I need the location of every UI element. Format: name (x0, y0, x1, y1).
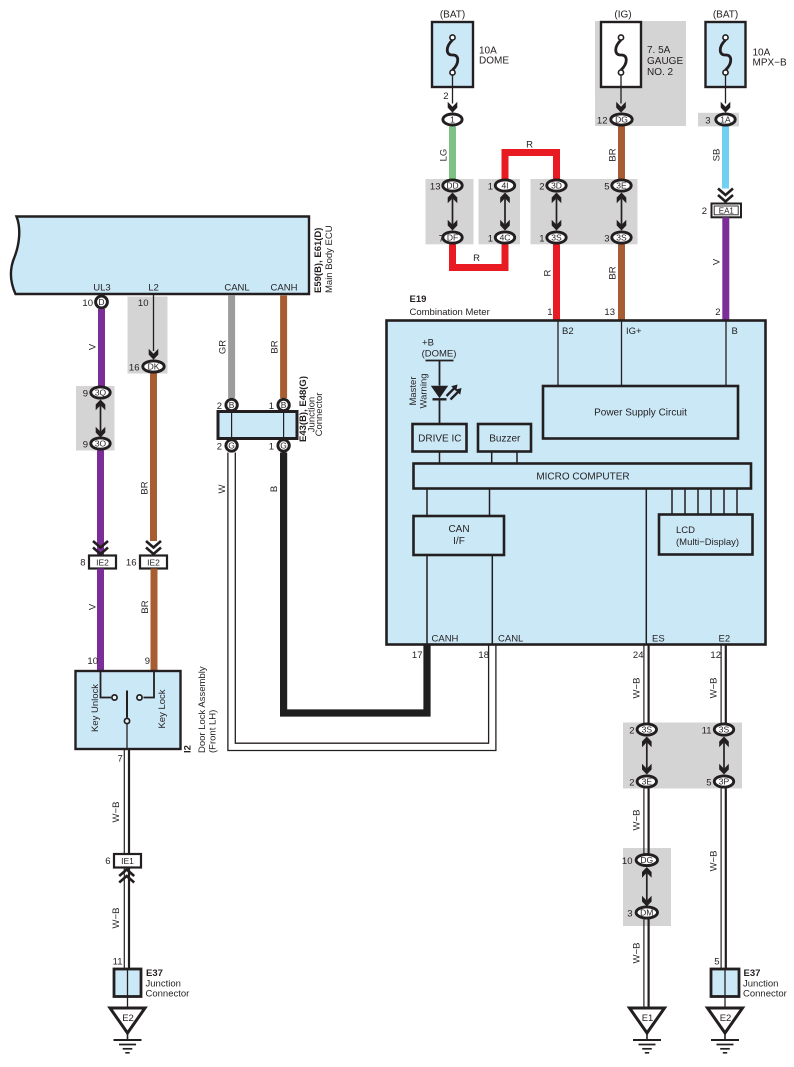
DRIVE IC (413, 424, 467, 452)
svg-text:DOME: DOME (479, 56, 509, 67)
connector 3E pin 5 (612, 180, 631, 191)
svg-text:V: V (87, 343, 98, 350)
svg-text:DK: DK (148, 362, 160, 372)
wire W-B Key to IE1 (123, 749, 125, 854)
svg-text:Buzzer: Buzzer (489, 434, 521, 445)
LED Master Warning (431, 386, 448, 398)
svg-text:E19: E19 (410, 294, 427, 305)
wire E37 to ground E2 right (724, 997, 726, 1009)
wires to MICRO COMPUTER (439, 452, 441, 464)
svg-text:3S: 3S (616, 233, 627, 243)
junction connector E37 left (114, 969, 141, 997)
svg-text:3E: 3E (642, 777, 653, 787)
svg-text:3: 3 (705, 115, 710, 126)
svg-text:W−B: W−B (631, 678, 642, 699)
svg-text:Combination Meter: Combination Meter (410, 307, 490, 318)
connector G pin 2 (226, 440, 237, 451)
svg-text:5: 5 (604, 181, 609, 192)
svg-text:E37: E37 (146, 968, 163, 979)
connector D pin 10 on ECU UL3 (96, 296, 108, 308)
connector 3Q pin 9 (91, 387, 110, 398)
svg-text:E37: E37 (744, 968, 761, 979)
connector block shading 4I/4C (479, 179, 521, 244)
svg-text:CANH: CANH (432, 634, 459, 645)
svg-text:5: 5 (714, 957, 719, 968)
svg-text:10: 10 (622, 856, 633, 867)
svg-text:DG: DG (615, 115, 628, 125)
svg-text:I2: I2 (183, 745, 194, 753)
wire V violet 3O to IE2 (97, 451, 104, 556)
svg-text:1: 1 (450, 115, 455, 125)
svg-text:+B: +B (422, 338, 434, 349)
connector block shading 1A (698, 113, 739, 127)
svg-text:W−B: W−B (111, 802, 122, 823)
wire W-B IE1 to E37 (123, 868, 125, 970)
connector DG pin 12 (611, 114, 632, 125)
ground symbol E1 (646, 1033, 648, 1040)
connector 3O pin 9 (91, 438, 110, 449)
svg-text:E2: E2 (719, 634, 731, 645)
connector DK pin 16 (143, 361, 164, 372)
connector block shading DD/DF (426, 179, 474, 244)
svg-text:GR: GR (217, 340, 228, 354)
junction arrows 3E-3S (621, 199, 623, 225)
connector DG pin 10 (636, 854, 657, 865)
svg-text:4I: 4I (501, 181, 508, 191)
wire W-B 3P to E37 (720, 789, 722, 970)
svg-text:10: 10 (87, 656, 98, 667)
svg-text:10: 10 (138, 298, 149, 309)
junction arrows DD-DF (452, 199, 454, 225)
wire W-B 3E to DG (643, 789, 645, 854)
svg-text:8: 8 (80, 557, 85, 568)
wire B black G to meter CANH (284, 453, 427, 714)
svg-text:B: B (269, 486, 280, 492)
svg-text:3O: 3O (95, 439, 107, 449)
svg-text:1: 1 (547, 307, 552, 318)
connector DF pin 7 (443, 232, 462, 243)
connector block shading 3S/3E/3S/3P (623, 723, 742, 789)
wire BR brown DG to 3E (618, 127, 625, 180)
svg-text:Master: Master (408, 376, 419, 405)
svg-text:E2: E2 (122, 1013, 134, 1024)
wire BR brown IE2 to Key Lock (151, 569, 158, 672)
svg-text:3S: 3S (551, 233, 562, 243)
svg-text:2: 2 (443, 91, 448, 102)
meter pin IG+ 13 (621, 322, 623, 387)
svg-text:R: R (542, 269, 553, 276)
svg-text:BR: BR (607, 266, 618, 279)
svg-text:E1: E1 (642, 1013, 654, 1024)
junction arrows 4I-4C (504, 199, 506, 225)
svg-text:2: 2 (217, 441, 222, 452)
MICRO COMPUTER (414, 464, 752, 489)
meter pin B 2 (725, 322, 727, 387)
wire W-B ES to 3S (643, 645, 645, 723)
wire MICRO COMPUTER to ES pin (645, 489, 647, 644)
svg-text:9: 9 (83, 439, 88, 450)
junction arrows 3S-3E (646, 743, 648, 769)
wire W white G to meter CANL (228, 453, 496, 751)
svg-text:B2: B2 (562, 326, 574, 337)
connector B pin 6 CANL (226, 399, 237, 410)
ground symbol E2 right (724, 1033, 726, 1040)
svg-text:GAUGE: GAUGE (647, 56, 683, 67)
ground triangle E2 right (708, 1008, 743, 1033)
connector 3S pin 3 (612, 232, 631, 243)
svg-text:(Multi−Display): (Multi−Display) (676, 537, 739, 548)
svg-text:B: B (732, 326, 738, 337)
ground symbol left (127, 1033, 129, 1040)
svg-text:2: 2 (702, 206, 707, 217)
svg-text:CANL: CANL (224, 283, 249, 294)
svg-text:2: 2 (629, 777, 634, 788)
svg-text:G: G (280, 441, 287, 451)
wire V violet IE2 to Key Unlock (97, 569, 104, 672)
svg-text:16: 16 (129, 362, 140, 373)
svg-text:CAN: CAN (448, 524, 469, 535)
svg-text:BR: BR (139, 481, 150, 494)
wire W-B meter E2 to 3S (720, 645, 722, 723)
svg-text:3: 3 (627, 908, 632, 919)
svg-text:3P: 3P (719, 777, 730, 787)
svg-text:BR: BR (607, 148, 618, 161)
svg-text:Connector: Connector (146, 989, 190, 1000)
svg-text:13: 13 (604, 307, 615, 318)
wire V violet D to 3Q (98, 309, 105, 387)
connector block shading GAUGE fuse / DG (595, 21, 686, 126)
svg-text:7: 7 (118, 754, 123, 765)
svg-text:ES: ES (652, 634, 665, 645)
svg-text:NO. 2: NO. 2 (647, 67, 674, 78)
Power Supply Circuit (543, 386, 738, 439)
svg-text:(IG): (IG) (614, 10, 631, 21)
svg-text:Key Lock: Key Lock (157, 689, 168, 728)
svg-text:Connector: Connector (743, 989, 787, 1000)
svg-text:SB: SB (711, 149, 722, 162)
Buzzer (478, 424, 531, 452)
wire L2 pin 10 to DK (153, 295, 155, 351)
wire BR brown DK to IE2 (150, 374, 157, 542)
svg-text:11: 11 (702, 725, 712, 736)
splice chevron BR (146, 541, 161, 554)
svg-text:(BAT): (BAT) (713, 10, 738, 21)
connector block shading L2/DK (128, 297, 168, 374)
svg-text:MICRO COMPUTER: MICRO COMPUTER (536, 472, 629, 483)
svg-text:3Q: 3Q (95, 388, 107, 398)
svg-text:W: W (217, 484, 228, 493)
svg-text:Main Body ECU: Main Body ECU (324, 225, 335, 293)
ground triangle E2 left (110, 1008, 145, 1033)
connector 3S pin 11 (714, 724, 733, 735)
connector B pin 5 CANH (278, 399, 289, 410)
svg-text:7. 5A: 7. 5A (647, 45, 671, 56)
Door Lock Assembly I2 Front LH (76, 671, 181, 749)
svg-text:W−B: W−B (111, 908, 122, 929)
svg-text:DD: DD (446, 181, 458, 191)
svg-text:3S: 3S (642, 725, 653, 735)
svg-text:6: 6 (105, 856, 110, 867)
svg-text:IE2: IE2 (96, 557, 109, 567)
wire R red 3S to meter B2 (553, 245, 560, 321)
wire fuse MPX-B to connector 1A (725, 75, 727, 104)
wire R red DF to 4C (453, 245, 506, 268)
svg-text:B: B (281, 400, 287, 410)
junction connector E43(B) E48(G) (218, 412, 297, 439)
junction arrows 3S-3P (723, 743, 725, 769)
connector G pin 1 (278, 440, 289, 451)
wire fuse DOME to connector 1 (452, 75, 454, 104)
svg-text:DG: DG (640, 855, 653, 865)
svg-text:W−B: W−B (631, 810, 642, 831)
svg-text:1: 1 (539, 233, 544, 244)
svg-text:3D: 3D (551, 181, 562, 191)
svg-text:(BAT): (BAT) (440, 10, 465, 21)
svg-text:W−B: W−B (631, 943, 642, 964)
svg-text:16: 16 (126, 557, 137, 568)
connector DD pin 13 (443, 180, 462, 191)
connector block shading DG/DM (623, 848, 671, 926)
connector EA1 pin 2 (712, 204, 742, 218)
svg-text:EA1: EA1 (719, 207, 735, 216)
svg-text:17: 17 (412, 650, 423, 661)
connector 3S pin 2 (637, 724, 656, 735)
splice chevron up W-B (119, 870, 134, 883)
connector 4I pin 1 (495, 180, 514, 191)
connector 4C pin 1 (495, 232, 514, 243)
svg-text:Connector: Connector (314, 393, 325, 437)
splice chevron SB (718, 189, 733, 202)
svg-text:V: V (87, 603, 98, 610)
wire R red 4I to 3D (505, 153, 557, 180)
svg-text:9: 9 (83, 388, 88, 399)
connector IE1 pin 6 (114, 854, 141, 868)
CAN I/F (414, 516, 505, 555)
svg-text:IG+: IG+ (626, 326, 642, 337)
svg-text:UL3: UL3 (93, 283, 110, 294)
svg-text:2: 2 (539, 181, 544, 192)
connector block shading 3D/3S/3E/3S (531, 179, 638, 244)
splice chevron V (93, 541, 108, 554)
connector 3S pin 1 (547, 232, 566, 243)
svg-text:IE2: IE2 (147, 557, 160, 567)
wire LG light green (449, 127, 456, 180)
svg-text:CANL: CANL (498, 634, 523, 645)
svg-text:L2: L2 (148, 283, 159, 294)
svg-text:4C: 4C (500, 233, 511, 243)
svg-text:13: 13 (430, 181, 441, 192)
svg-text:5: 5 (706, 777, 711, 788)
junction connector E37 right (711, 969, 739, 997)
wire W-B DM to E1 (643, 920, 645, 1009)
meter pin B2 1 (557, 322, 559, 387)
svg-text:E59(B), E61(D): E59(B), E61(D) (313, 228, 324, 293)
svg-text:R: R (473, 253, 480, 264)
connector 3D pin 2 (547, 180, 566, 191)
junction arrows 3Q-3O (100, 406, 102, 432)
svg-text:IE1: IE1 (121, 856, 134, 866)
wire SB sky blue 1A down (722, 127, 729, 189)
svg-text:V: V (712, 258, 723, 265)
svg-text:E2: E2 (720, 1013, 732, 1024)
svg-text:1: 1 (488, 233, 493, 244)
svg-text:1: 1 (269, 441, 274, 452)
connector block shading 3Q/3O (76, 386, 115, 451)
connector 3E pin 2 (637, 776, 656, 787)
svg-text:(DOME): (DOME) (422, 349, 457, 360)
wire BR brown CANH to junction (280, 296, 287, 399)
svg-text:DF: DF (447, 233, 458, 243)
ground triangle E1 (630, 1008, 665, 1033)
svg-text:Key Unlock: Key Unlock (90, 684, 101, 732)
wires MICRO COMPUTER to CAN I/F (426, 489, 428, 517)
svg-text:11: 11 (113, 957, 123, 968)
LCD Multi-Display (659, 515, 753, 555)
switch Key Lock (144, 671, 155, 698)
svg-text:W−B: W−B (708, 851, 719, 872)
connector IE2 pin 8 (89, 556, 116, 569)
svg-text:12: 12 (597, 115, 608, 126)
svg-text:R: R (526, 140, 533, 151)
svg-text:(Front LH): (Front LH) (208, 710, 219, 753)
junction arrows DG-DM (646, 873, 648, 901)
connector DM pin 3 (636, 907, 657, 918)
svg-text:2: 2 (715, 307, 720, 318)
svg-text:18: 18 (478, 650, 489, 661)
wires CAN I/F to CANH CANL pins (426, 555, 428, 644)
wire GR gray CANL to junction (228, 296, 235, 399)
svg-text:W−B: W−B (708, 678, 719, 699)
svg-text:B: B (229, 400, 235, 410)
wires MICRO COMPUTER to LCD (671, 489, 673, 515)
svg-text:I/F: I/F (453, 536, 465, 547)
svg-text:Power Supply Circuit: Power Supply Circuit (594, 408, 687, 419)
svg-text:LG: LG (438, 149, 449, 162)
switch lever (126, 691, 128, 718)
svg-text:CANH: CANH (271, 283, 298, 294)
svg-text:BR: BR (269, 340, 280, 353)
Combination Meter E19 (387, 321, 766, 645)
connector 3P pin 5 (714, 776, 733, 787)
svg-text:DRIVE IC: DRIVE IC (418, 434, 461, 445)
Main Body ECU E59(B) E61(D) (11, 217, 309, 295)
svg-text:24: 24 (633, 650, 644, 661)
wire BR brown 3S to meter IG+ (618, 245, 625, 321)
svg-text:LCD: LCD (676, 525, 695, 536)
connector oval 1 (443, 114, 462, 125)
svg-text:1: 1 (488, 181, 493, 192)
svg-text:9: 9 (145, 656, 150, 667)
svg-text:7: 7 (439, 233, 444, 244)
svg-text:3S: 3S (719, 725, 730, 735)
svg-text:G: G (228, 441, 235, 451)
svg-text:1A: 1A (720, 115, 731, 125)
wire E37 to ground E2 (127, 997, 129, 1009)
connector 1A pin 3 (716, 114, 735, 125)
wire fuse GAUGE to connector DG (620, 75, 622, 104)
svg-text:2: 2 (629, 725, 634, 736)
svg-text:BR: BR (140, 600, 151, 613)
svg-text:D: D (98, 297, 104, 307)
wire V violet EA1 to meter B (722, 217, 729, 320)
svg-text:3: 3 (604, 233, 609, 244)
svg-text:12: 12 (710, 650, 721, 661)
svg-text:Warning: Warning (419, 373, 430, 408)
svg-text:DM: DM (640, 908, 653, 918)
svg-text:3E: 3E (616, 181, 627, 191)
connector IE2 pin 16 (140, 556, 167, 569)
svg-text:10: 10 (82, 298, 93, 309)
svg-text:MPX−B: MPX−B (753, 58, 788, 69)
svg-text:Door Lock Assembly: Door Lock Assembly (197, 666, 208, 753)
junction arrows 3D-3S (556, 199, 558, 225)
switch Key Unlock (101, 671, 112, 698)
